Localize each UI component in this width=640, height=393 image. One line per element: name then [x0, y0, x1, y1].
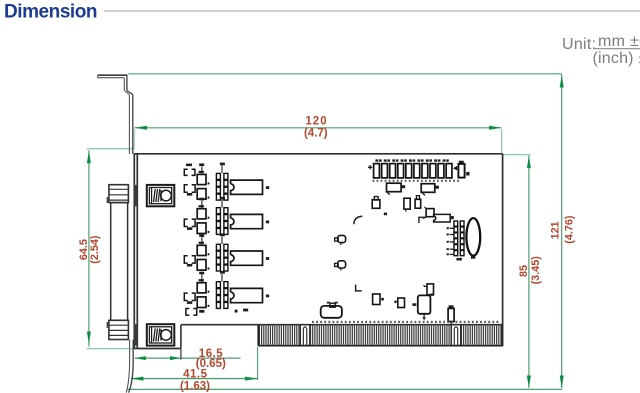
svg-text:(4.76): (4.76): [563, 215, 575, 244]
svg-text:(3.45): (3.45): [530, 256, 542, 285]
svg-text:Unit:: Unit:: [562, 36, 596, 53]
svg-text:(4.7): (4.7): [304, 128, 328, 140]
svg-text:mm ±0: mm ±0: [598, 33, 640, 50]
svg-text:(1.63): (1.63): [180, 380, 210, 392]
svg-text:121: 121: [549, 221, 561, 239]
svg-text:Dimension: Dimension: [4, 1, 97, 22]
svg-text:41.5: 41.5: [183, 368, 207, 380]
svg-text:(inch) ±0: (inch) ±0: [593, 50, 640, 67]
svg-text:85: 85: [518, 265, 530, 277]
svg-text:120: 120: [305, 116, 327, 128]
svg-text:(2.54): (2.54): [89, 235, 101, 264]
